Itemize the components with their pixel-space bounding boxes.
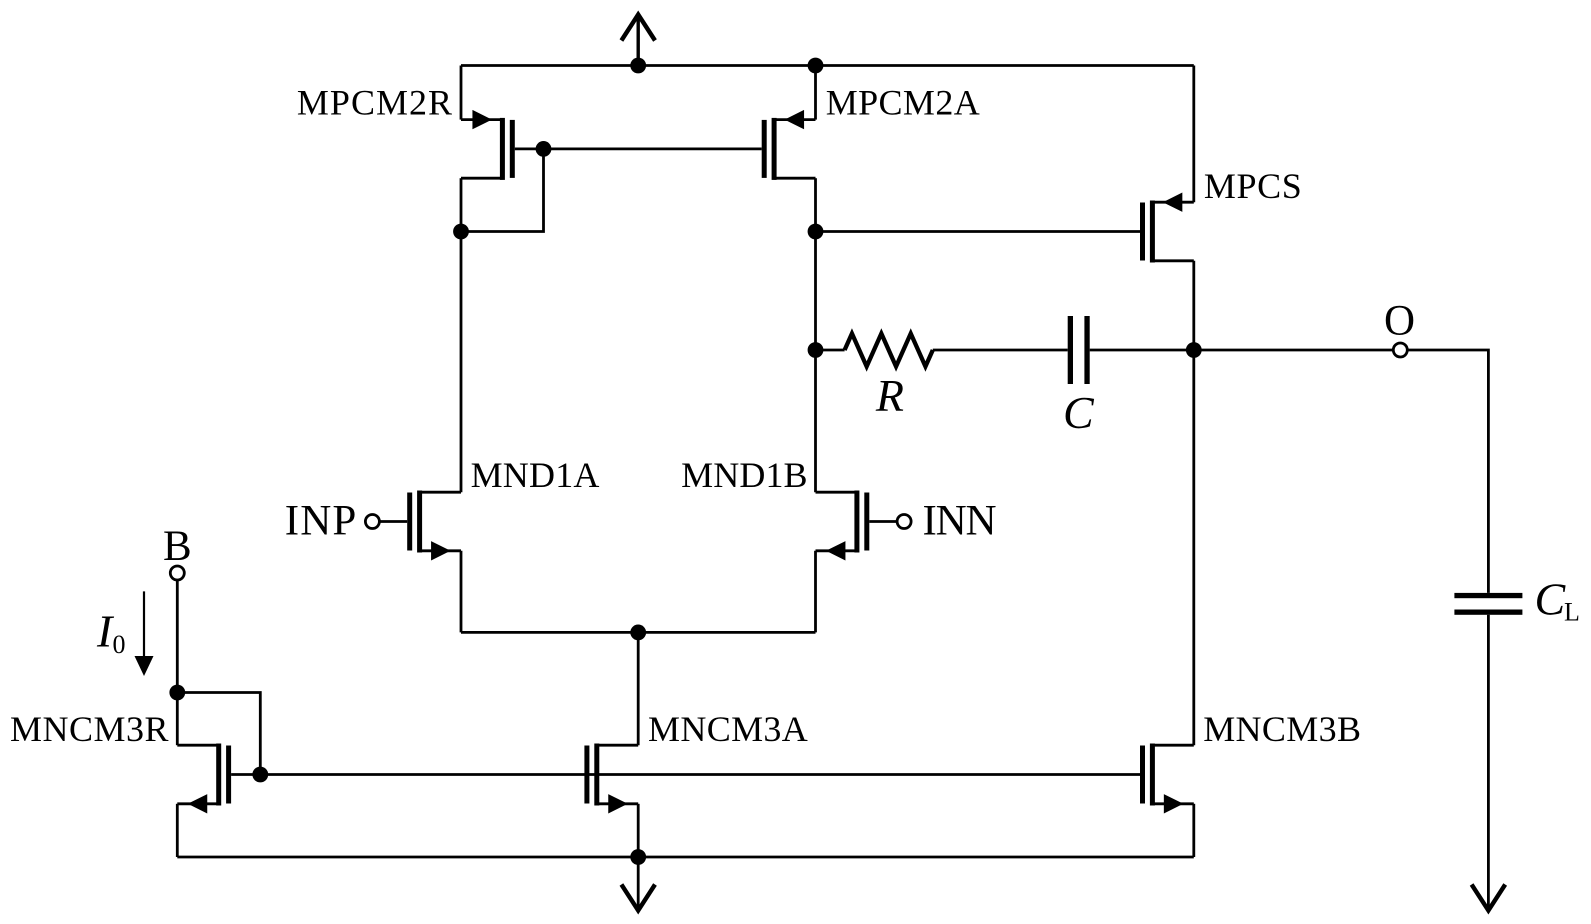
terminal INN bbox=[897, 515, 911, 529]
wire output node to O terminal bbox=[1194, 349, 1394, 352]
ground arrow center bbox=[621, 857, 655, 911]
wire MND1A source down to tail bbox=[460, 551, 463, 633]
node MPCM2A drain bbox=[808, 224, 824, 240]
wire ground rail bbox=[177, 856, 1194, 859]
wire MNCM3R source down to ground rail bbox=[176, 804, 179, 857]
svg-text:MPCM2A: MPCM2A bbox=[826, 83, 980, 123]
transistor MND1B bbox=[816, 491, 870, 561]
wire bias node to gate bus bbox=[177, 693, 260, 775]
resistor R bbox=[845, 334, 933, 367]
svg-text:INP: INP bbox=[285, 498, 358, 545]
transistor MNCM3A bbox=[584, 744, 638, 814]
wire MNCM3A source down to ground rail bbox=[637, 804, 640, 857]
wire gate bus bbox=[260, 773, 1140, 776]
wire bias node down to MNCM3R drain bbox=[176, 693, 179, 746]
wire R node down to MND1B drain bbox=[814, 350, 817, 492]
node tail bbox=[630, 625, 646, 641]
transistor MNCM3R bbox=[177, 744, 231, 814]
capacitor C bbox=[1068, 316, 1090, 384]
node ground bbox=[630, 849, 646, 865]
wire right branch down to R node bbox=[814, 232, 817, 351]
transistor MPCM2A bbox=[762, 110, 816, 180]
wire INN to MND1B gate bbox=[869, 520, 897, 523]
svg-text:MNCM3B: MNCM3B bbox=[1203, 709, 1361, 749]
wire MPCM2R gate lead bbox=[515, 147, 544, 150]
wire MND1B source down to tail bbox=[814, 551, 817, 633]
wire CL to ground arrow bbox=[1487, 615, 1490, 909]
wire INP to MND1A gate bbox=[379, 520, 407, 523]
node VDD-right bbox=[808, 58, 824, 74]
svg-text:R: R bbox=[875, 370, 904, 421]
svg-text:C: C bbox=[1535, 574, 1567, 625]
svg-text:O: O bbox=[1384, 298, 1415, 345]
node MPCM2R gate bbox=[536, 141, 552, 157]
svg-text:MPCS: MPCS bbox=[1204, 166, 1302, 206]
transistor MPCS bbox=[1140, 193, 1194, 263]
terminal INP bbox=[365, 515, 379, 529]
wire resistor to capacitor bbox=[933, 349, 1068, 352]
wire O to CL branch bbox=[1407, 350, 1488, 593]
node bias bbox=[169, 685, 185, 701]
svg-text:MNCM3R: MNCM3R bbox=[10, 709, 169, 749]
node VDD-center bbox=[630, 58, 646, 74]
wire MNCM3B source down to ground rail bbox=[1192, 804, 1195, 857]
wire VDD rail bbox=[461, 64, 1194, 67]
node gate bus bbox=[252, 767, 268, 783]
svg-text:L: L bbox=[1564, 598, 1580, 627]
svg-text:MNCM3A: MNCM3A bbox=[648, 709, 808, 749]
wire MPCM2R drain down bbox=[460, 178, 463, 231]
node MPCM2R drain bbox=[453, 224, 469, 240]
wire rail to MPCM2R source bbox=[460, 66, 463, 120]
transistor MNCM3B bbox=[1140, 744, 1194, 814]
wire MNCM3R gate lead bbox=[231, 773, 260, 776]
wire MPCM2R gate to drain (diode tie) bbox=[461, 149, 544, 232]
transistor MND1A bbox=[407, 491, 461, 561]
terminal B bbox=[170, 566, 184, 580]
terminal O bbox=[1393, 343, 1407, 357]
svg-text:MND1A: MND1A bbox=[471, 455, 600, 495]
node output bbox=[1186, 342, 1202, 358]
capacitor CL bbox=[1454, 593, 1522, 615]
wire capacitor to output node bbox=[1090, 349, 1194, 352]
svg-text:B: B bbox=[163, 523, 192, 570]
svg-text:0: 0 bbox=[113, 630, 126, 659]
wire rail to MPCM2A source bbox=[814, 66, 817, 120]
wire gate link MPCM2R-MPCM2A bbox=[544, 147, 762, 150]
wire tail down to MNCM3A drain bbox=[637, 632, 640, 745]
wire left branch down to MND1A drain bbox=[460, 232, 463, 493]
wire B down to bias node bbox=[176, 580, 179, 693]
transistor MPCM2R bbox=[461, 110, 515, 180]
wire to resistor bbox=[816, 349, 845, 352]
wire MPCM2A drain to MPCS gate bbox=[816, 230, 1141, 233]
svg-text:INN: INN bbox=[923, 498, 997, 545]
svg-text:MPCM2R: MPCM2R bbox=[297, 83, 453, 123]
svg-text:MND1B: MND1B bbox=[681, 455, 808, 495]
node R input bbox=[808, 342, 824, 358]
wire MPCS drain down to output node bbox=[1192, 261, 1195, 350]
wire rail to MPCS source bbox=[1192, 66, 1195, 203]
svg-text:C: C bbox=[1063, 387, 1095, 438]
wire MPCM2A drain down bbox=[814, 178, 817, 231]
VDD supply arrow bbox=[621, 15, 655, 66]
wire output node down to MNCM3B drain bbox=[1192, 350, 1195, 745]
wire tail bbox=[461, 631, 816, 634]
ground arrow CL bbox=[1472, 885, 1506, 911]
current arrow I0 bbox=[135, 591, 154, 676]
